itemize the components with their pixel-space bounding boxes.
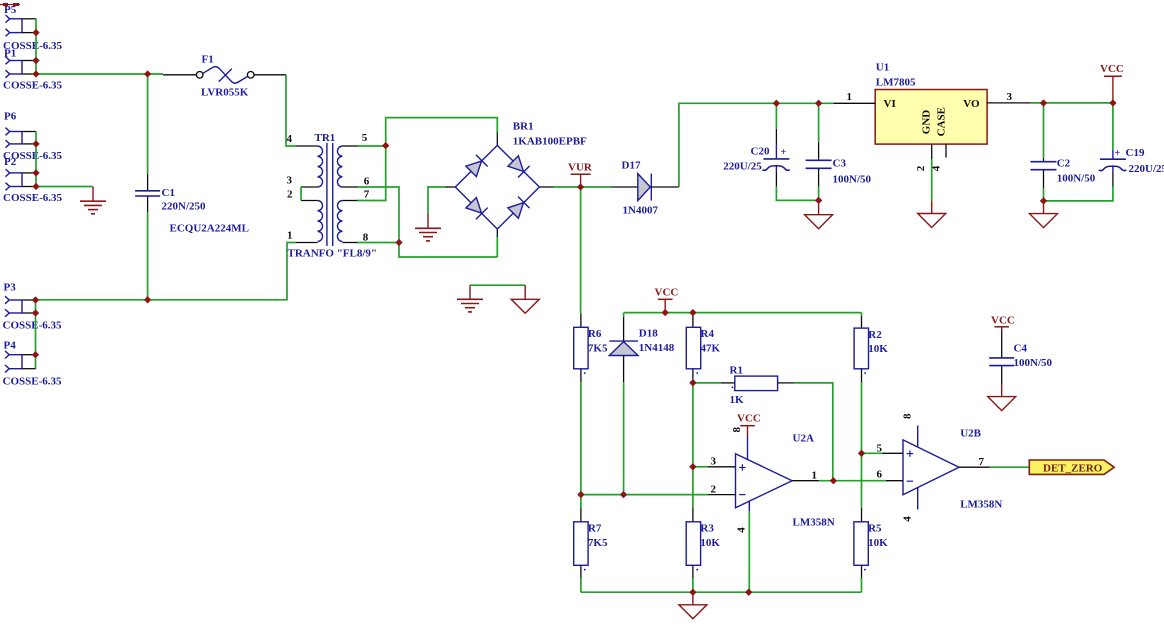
resistor R1 lead left	[721, 382, 735, 384]
pin 8 stub U2B	[917, 426, 919, 448]
pin 2 lead U2A	[708, 494, 736, 496]
svg-text:ECQU2A224ML: ECQU2A224ML	[170, 223, 249, 235]
svg-text:P5: P5	[4, 4, 17, 16]
svg-text:R4: R4	[701, 328, 715, 340]
svg-text:COSSE-6.35: COSSE-6.35	[3, 192, 62, 204]
svg-text:P4: P4	[4, 340, 17, 352]
capacitor C3	[818, 142, 820, 160]
resistor R5	[854, 522, 868, 566]
svg-text:8: 8	[731, 427, 743, 433]
svg-text:C19: C19	[1126, 147, 1145, 159]
op-amp U2B	[903, 440, 959, 495]
svg-text:100N/50: 100N/50	[1014, 357, 1053, 369]
resistor R4 lead top	[692, 316, 694, 327]
pin 8 stub U2A	[747, 436, 749, 460]
svg-text:COSSE-6.35: COSSE-6.35	[3, 320, 62, 332]
svg-text:P6: P6	[4, 111, 17, 123]
svg-text:COSSE-6.35: COSSE-6.35	[3, 80, 62, 92]
pin 4 stub U2B	[917, 487, 919, 509]
wire R4 bottom to pin3 node	[692, 383, 694, 467]
wire VCC bus	[624, 312, 862, 314]
resistor R3	[686, 522, 700, 566]
resistor R6	[574, 327, 588, 369]
wire U2B out	[990, 466, 1030, 468]
junction P1 pin2	[33, 71, 39, 77]
svg-text:1N4148: 1N4148	[639, 342, 675, 354]
svg-text:7: 7	[364, 189, 370, 201]
svg-text:C20: C20	[751, 145, 770, 157]
svg-text:6: 6	[364, 175, 370, 187]
wire C2 top	[1043, 103, 1045, 158]
ground triangle U1	[931, 201, 933, 214]
svg-text:2: 2	[287, 189, 293, 201]
wire R7 top	[580, 495, 582, 508]
wire R3 bottom	[692, 578, 694, 592]
wire U1 output	[1031, 102, 1113, 104]
wire P5-P1 vertical	[35, 19, 37, 74]
junction R6/R7 node	[578, 492, 584, 498]
resistor R6 lead bottom	[580, 369, 582, 382]
svg-text:7: 7	[979, 456, 985, 468]
resistor R2 lead bottom	[861, 369, 863, 382]
svg-text:+: +	[781, 147, 787, 158]
wire VUR down to R6	[580, 187, 582, 314]
junction C3 bottom	[816, 197, 822, 203]
diode D18	[623, 313, 625, 317]
connector P4	[5, 351, 9, 359]
wire pin4 U2A down	[748, 511, 750, 592]
diode D17	[611, 186, 638, 188]
svg-text:GND: GND	[921, 110, 933, 135]
junction VUR	[578, 184, 584, 190]
svg-text:U1: U1	[876, 61, 889, 73]
wire bridge right to VUR	[554, 186, 581, 188]
svg-text:R7: R7	[588, 523, 602, 535]
svg-text:LM7805: LM7805	[876, 77, 916, 89]
wire R4 top	[692, 313, 694, 316]
connector P5	[6, 15, 10, 23]
capacitor C2	[1043, 158, 1045, 161]
resistor R5 lead bottom	[861, 565, 863, 578]
wire C3 top	[818, 103, 820, 141]
pin 6 lead U2B	[886, 480, 903, 482]
svg-text:4: 4	[902, 516, 914, 522]
wire VUR to D17	[581, 186, 611, 188]
svg-text:8: 8	[902, 413, 914, 419]
svg-text:10K: 10K	[868, 537, 888, 549]
bridge rectifier BR1	[496, 133, 498, 146]
svg-text:220U/25: 220U/25	[723, 160, 762, 172]
pin 3 lead U2A	[708, 466, 736, 468]
ground triangle main	[692, 592, 694, 605]
junction TR1 pin5	[383, 143, 389, 149]
junction P1 pin1	[33, 57, 39, 63]
svg-text:1: 1	[847, 91, 853, 103]
svg-text:TR1: TR1	[315, 132, 336, 144]
wire TR1 pin6/pin8 to bridge bottom	[358, 187, 498, 257]
junction C20 top	[773, 100, 779, 106]
junction C2 bottom	[1040, 198, 1046, 204]
junction R2/R5 node	[858, 450, 864, 456]
ground P2 earth	[92, 187, 94, 202]
svg-text:47K: 47K	[701, 342, 721, 354]
net flag DET_ZERO	[1029, 460, 1114, 474]
wire TR1 pin5/pin7 to bridge top	[358, 146, 386, 201]
svg-text:LVR055K: LVR055K	[201, 87, 249, 99]
svg-text:1: 1	[812, 470, 818, 482]
svg-text:1K: 1K	[730, 394, 745, 406]
svg-text:R6: R6	[588, 328, 602, 340]
svg-text:C3: C3	[833, 157, 847, 169]
wire pin5 node up	[386, 118, 498, 146]
svg-text:VCC: VCC	[655, 286, 679, 298]
svg-text:5: 5	[362, 132, 368, 144]
pin 1 lead U2A	[792, 480, 819, 482]
ground triangle C20/C3	[818, 200, 820, 214]
wire R5 bottom	[861, 578, 863, 592]
svg-text:P1: P1	[4, 48, 16, 60]
ground triangle below bridge	[524, 285, 526, 299]
wire C19 top	[1112, 103, 1114, 150]
svg-text:4: 4	[287, 133, 293, 145]
svg-text:VCC: VCC	[737, 413, 761, 425]
wire pin3 node down to R3	[692, 467, 694, 508]
resistor R6 lead top	[580, 314, 582, 328]
capacitor C19	[1112, 150, 1114, 159]
wire D18 bottom	[623, 382, 625, 494]
op-amp U2A	[736, 454, 793, 508]
wire bridge bottom	[496, 237, 498, 257]
svg-text:+: +	[1115, 148, 1121, 159]
svg-text:3: 3	[711, 456, 717, 468]
svg-text:1: 1	[287, 230, 293, 242]
svg-text:VCC: VCC	[1100, 63, 1124, 75]
wire U1 GND down	[931, 159, 933, 201]
wire R6 bottom	[580, 382, 582, 495]
resistor R4	[686, 327, 700, 369]
svg-text:4: 4	[735, 527, 747, 533]
resistor R2 lead top	[861, 316, 863, 328]
wire C1 top	[147, 74, 149, 174]
svg-text:1KAB100EPBF: 1KAB100EPBF	[513, 135, 587, 147]
junction P3 pin2	[32, 310, 38, 316]
svg-text:C2: C2	[1057, 157, 1071, 169]
svg-text:100N/50: 100N/50	[833, 173, 872, 185]
svg-text:P3: P3	[4, 282, 17, 294]
connector P6	[6, 128, 10, 136]
junction P5 pin2	[33, 30, 39, 36]
wire C1 bottom	[147, 212, 149, 300]
svg-text:D17: D17	[622, 159, 641, 171]
svg-text:10K: 10K	[700, 537, 720, 549]
svg-text:7K5: 7K5	[588, 537, 608, 549]
svg-text:2: 2	[915, 165, 927, 171]
wire U2A out	[819, 480, 886, 482]
wire P2 to ground	[36, 186, 93, 188]
resistor R2	[854, 328, 868, 369]
svg-text:10K: 10K	[868, 343, 888, 355]
svg-text:100N/50: 100N/50	[1057, 173, 1096, 185]
connector P1	[6, 57, 10, 65]
junction C2 top	[1040, 100, 1046, 106]
svg-text:F1: F1	[202, 54, 214, 66]
svg-text:7K5: 7K5	[588, 342, 608, 354]
junction C3 top	[816, 100, 822, 106]
svg-text:220N/250: 220N/250	[162, 201, 207, 213]
svg-text:CASE: CASE	[936, 107, 948, 136]
svg-text:4: 4	[931, 165, 943, 171]
wire pin3	[693, 466, 708, 468]
ground triangle C2	[1043, 201, 1045, 214]
junction ground bus pin4	[746, 589, 752, 595]
svg-text:R2: R2	[868, 329, 882, 341]
wire R2 node to pin5	[862, 452, 883, 454]
wire C2 bottom	[1043, 188, 1045, 201]
resistor R7 lead bottom	[580, 565, 582, 578]
pin 4 lead U1 CASE	[945, 144, 947, 157]
wire TR1 pins 3-2 link	[300, 187, 302, 201]
svg-text:VUR: VUR	[568, 162, 593, 174]
svg-text:R1: R1	[730, 365, 743, 377]
svg-text:R5: R5	[868, 523, 882, 535]
junction P3 pin1	[32, 297, 38, 303]
pin 1 lead U1	[834, 102, 876, 104]
pin 4 stub U2A	[748, 502, 750, 512]
svg-text:C1: C1	[162, 187, 175, 199]
wire R4/R1 node to R1	[693, 382, 721, 384]
fuse F1	[163, 74, 196, 76]
capacitor C1	[147, 174, 149, 190]
svg-text:D18: D18	[639, 327, 658, 339]
svg-text:3: 3	[1007, 91, 1013, 103]
junction R4 top	[690, 310, 696, 316]
svg-text:220U/25: 220U/25	[1129, 163, 1164, 175]
wire C19 bottom	[1044, 187, 1113, 201]
svg-text:1N4007: 1N4007	[623, 205, 659, 217]
wire bottom bus P3 to TR1 pin1	[36, 243, 297, 300]
wire C20 bottom	[776, 187, 818, 201]
svg-text:6: 6	[877, 469, 883, 481]
wire bridge left to ground	[428, 187, 445, 214]
wire P1 to C1 horizontal	[36, 73, 163, 75]
wire R1 to U2A output	[795, 383, 833, 481]
wire R2 bottom	[861, 382, 863, 453]
junction VCC mid	[662, 310, 668, 316]
junction ground bus R3	[690, 589, 696, 595]
svg-text:R3: R3	[700, 523, 714, 535]
wire P3-P4 vertical	[35, 300, 37, 369]
wire P6-P2 vertical	[35, 132, 37, 187]
ground earth below bridge	[469, 285, 471, 299]
junction U2A output	[830, 478, 836, 484]
svg-text:VCC: VCC	[991, 314, 1015, 326]
svg-text:2: 2	[711, 483, 717, 495]
capacitor C4	[1001, 331, 1003, 357]
regulator U1	[875, 90, 987, 145]
resistor R5 lead top	[861, 508, 863, 522]
svg-text:LM358N: LM358N	[793, 517, 835, 529]
wire R2 node down to R5	[861, 453, 863, 508]
resistor R7	[574, 522, 588, 566]
wire C3 bottom	[818, 187, 820, 201]
svg-text:TRANFO "FL8/9": TRANFO "FL8/9"	[288, 247, 378, 259]
wire C20 top	[775, 103, 777, 129]
wire TR1 pin8	[358, 242, 400, 244]
wire fuse to TR1 pin4	[286, 75, 296, 146]
pin 3 lead U1	[987, 102, 1031, 104]
svg-text:COSSE-6.35: COSSE-6.35	[3, 375, 62, 387]
border remnant	[0, 4, 20, 6]
svg-text:LM358N: LM358N	[960, 499, 1002, 511]
ground bridge left earth	[427, 214, 429, 228]
connector P3	[5, 296, 9, 304]
resistor R3 lead top	[692, 508, 694, 522]
svg-text:P2: P2	[4, 156, 17, 168]
junction TR1 pin8	[396, 239, 402, 245]
svg-text:U2B: U2B	[960, 427, 981, 439]
wire inverting bus	[581, 494, 708, 496]
pin 5 lead U2B	[883, 452, 904, 454]
svg-text:VI: VI	[884, 98, 896, 110]
wire ground link	[470, 284, 525, 286]
svg-text:DET_ZERO: DET_ZERO	[1043, 463, 1103, 475]
pin 2 lead U1 GND	[931, 144, 933, 159]
connector P2	[6, 169, 10, 177]
wire R7 bottom	[580, 578, 582, 592]
junction D18 bottom	[621, 492, 627, 498]
junction P4 pin1	[32, 352, 38, 358]
junction C1 bottom	[145, 297, 151, 303]
wire R2 top	[861, 313, 863, 316]
junction P6 pin2	[33, 141, 39, 147]
svg-text:3: 3	[287, 174, 293, 186]
capacitor C20	[775, 129, 777, 143]
transformer TR1	[296, 145, 318, 147]
resistor R4 lead bottom	[692, 369, 694, 383]
wire D17 to U1 input	[679, 103, 834, 187]
svg-text:U2A: U2A	[793, 432, 814, 444]
svg-text:5: 5	[877, 442, 883, 454]
resistor R7 lead top	[580, 508, 582, 522]
resistor R1	[735, 376, 778, 391]
svg-text:C4: C4	[1014, 342, 1028, 354]
junction P2 pin2	[33, 183, 39, 189]
resistor R3 lead bottom	[692, 565, 694, 578]
junction pin3 node	[690, 464, 696, 470]
junction C19 top	[1110, 100, 1116, 106]
junction C1 top	[145, 71, 151, 77]
svg-text:BR1: BR1	[513, 121, 534, 133]
pin 7 lead U2B	[959, 466, 990, 468]
wire ground bus	[581, 591, 862, 593]
junction R4 bottom	[690, 380, 696, 386]
ground triangle C4	[1001, 384, 1003, 397]
junction P2 pin1	[33, 170, 39, 176]
svg-text:VO: VO	[963, 98, 980, 110]
resistor R1 lead right	[778, 382, 795, 384]
